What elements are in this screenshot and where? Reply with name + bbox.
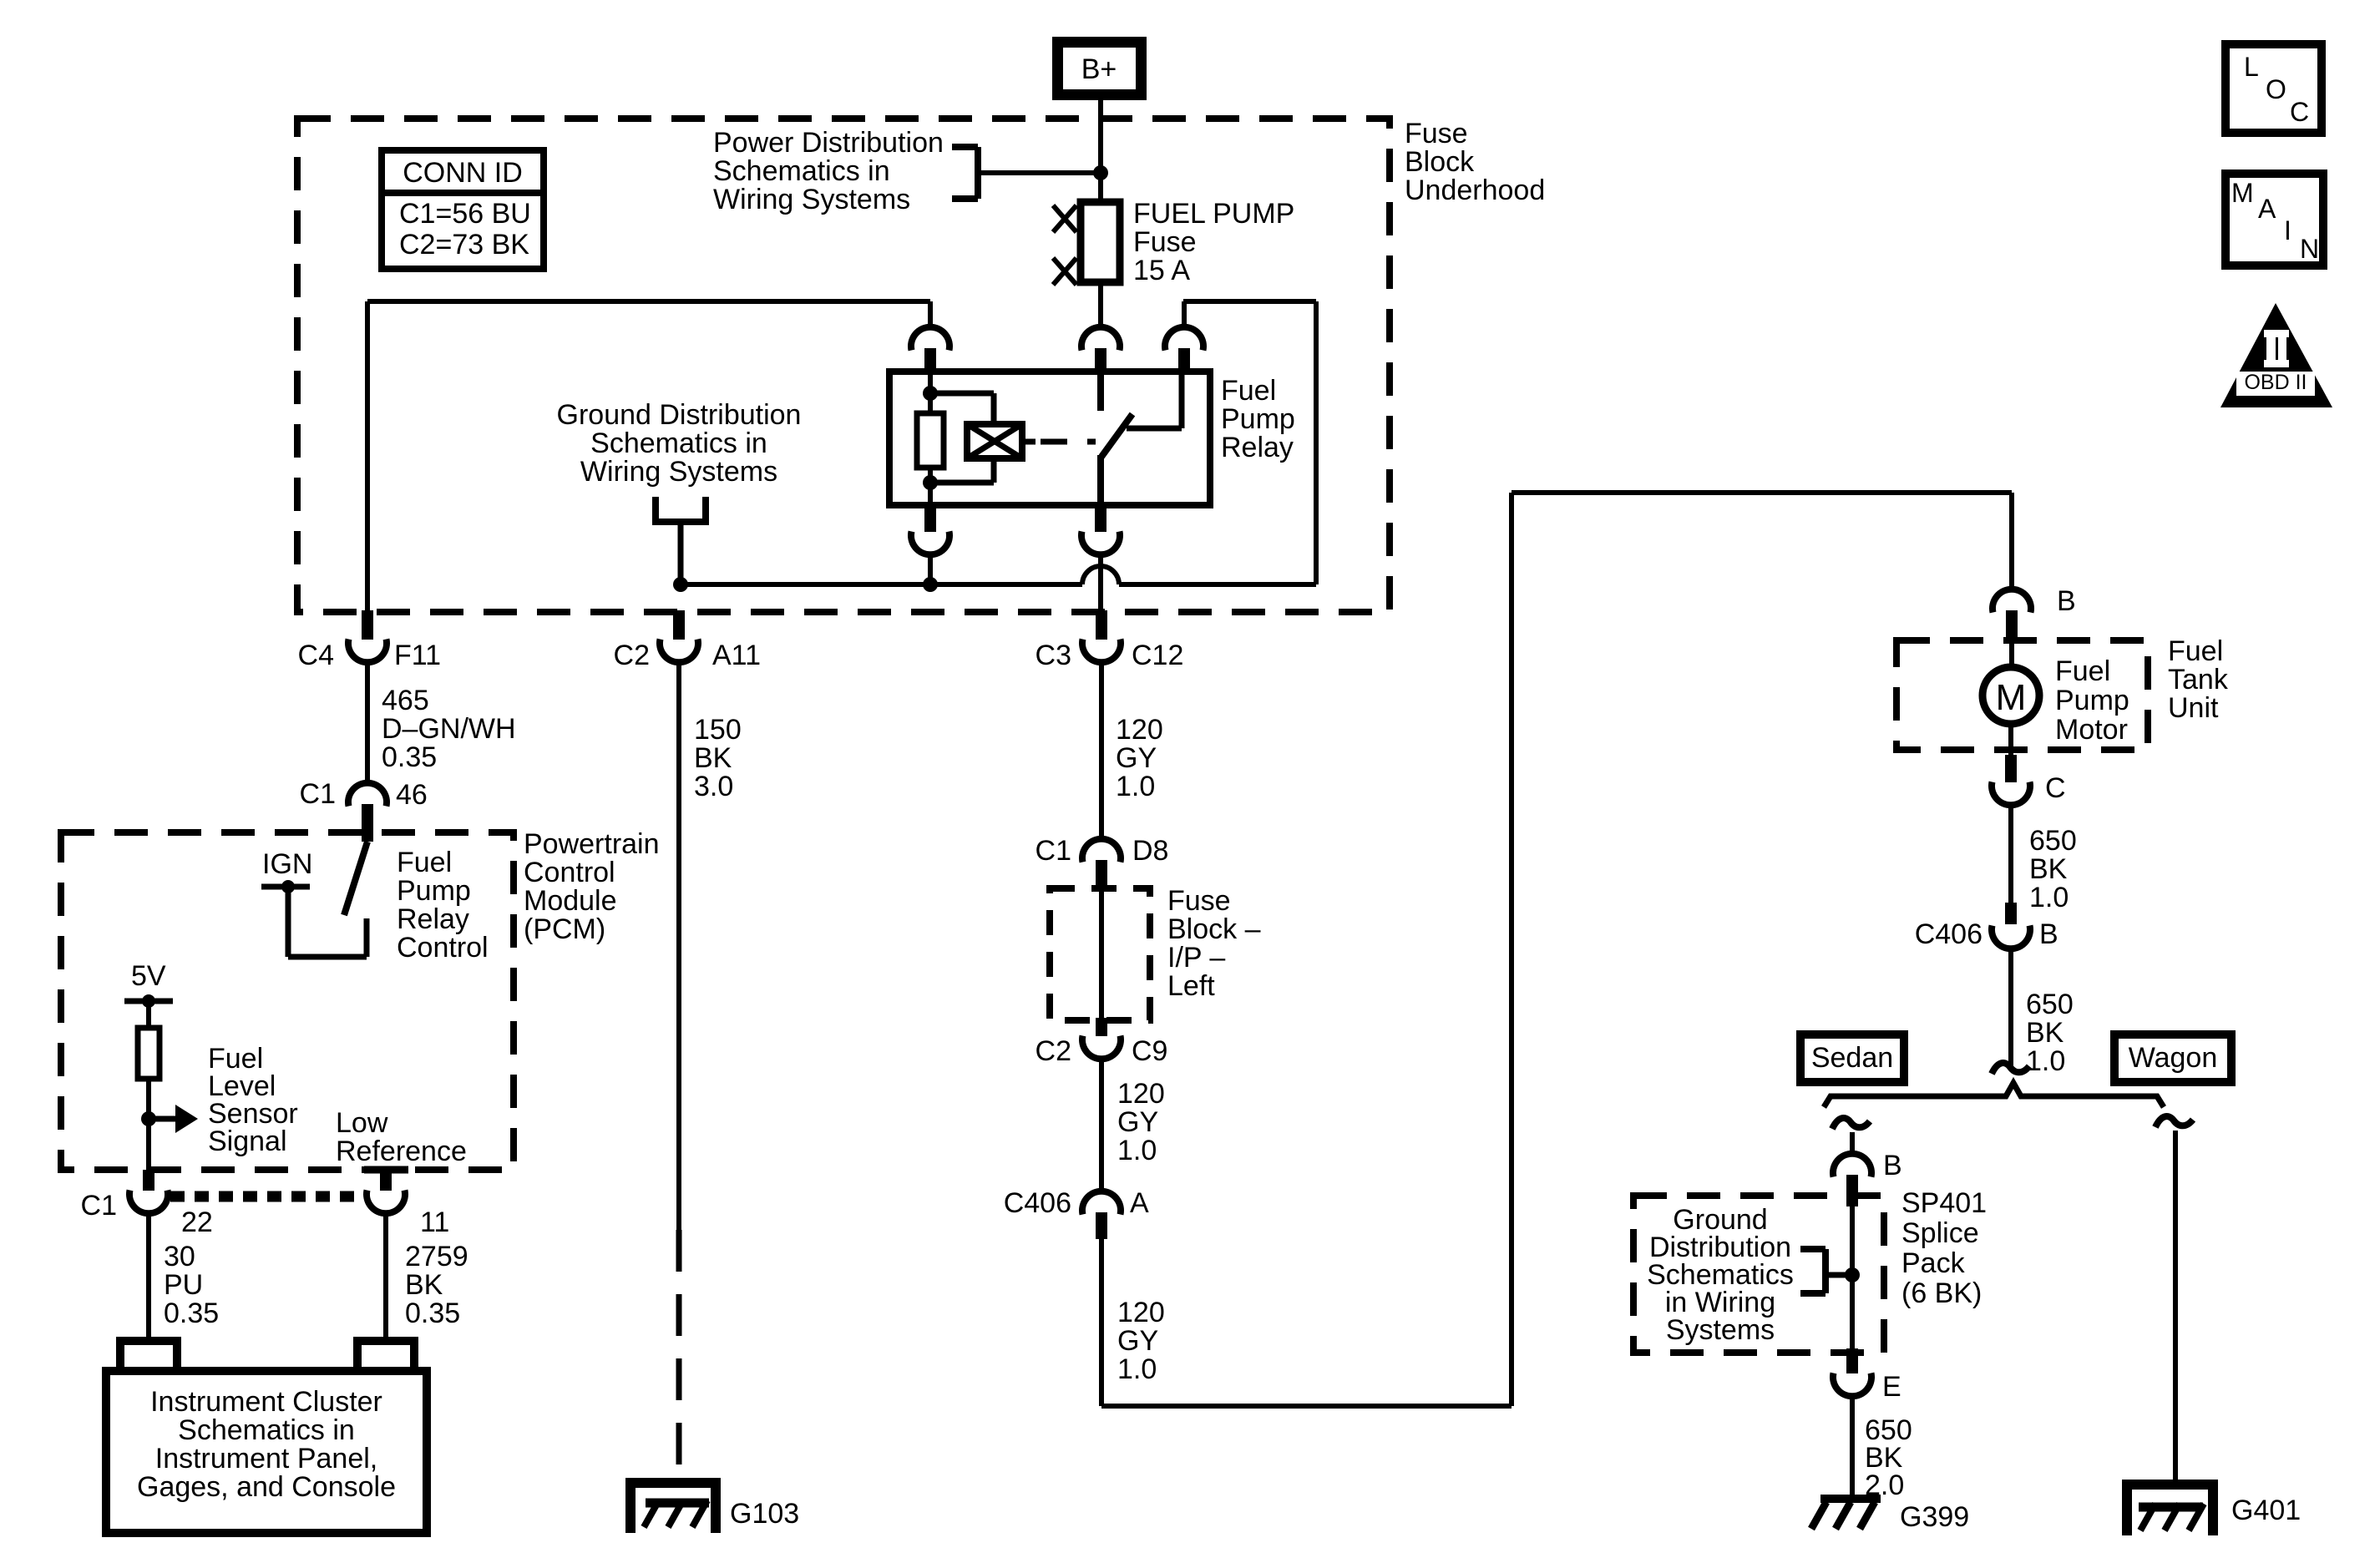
wire coil branch xyxy=(930,391,994,397)
wire 120 GY 1.0 (c) to fuel tank xyxy=(1099,1239,1104,1406)
svg-text:C: C xyxy=(2045,772,2066,804)
svg-text:30: 30 xyxy=(164,1241,195,1272)
dashed wire to G103 xyxy=(676,1230,682,1473)
low reference pin tick xyxy=(364,1166,408,1174)
svg-text:C12: C12 xyxy=(1132,640,1183,671)
svg-text:1.0: 1.0 xyxy=(1117,1353,1157,1385)
wire through fuse block IP xyxy=(1099,892,1104,1018)
junction dot ground distribution tap xyxy=(673,577,688,592)
svg-text:1.0: 1.0 xyxy=(1116,771,1155,802)
svg-text:Schematics in: Schematics in xyxy=(590,427,767,459)
icon LOC xyxy=(2226,44,2322,133)
svg-text:Ground Distribution: Ground Distribution xyxy=(557,399,802,431)
svg-text:C2: C2 xyxy=(614,640,650,671)
wire bottom run to right riser xyxy=(1101,1404,1512,1409)
svg-text:Fuse: Fuse xyxy=(1167,885,1231,917)
connector C406 / A xyxy=(1082,1191,1121,1215)
wire motor to C connector xyxy=(2008,724,2013,755)
svg-text:N: N xyxy=(2300,234,2319,264)
svg-text:G399: G399 xyxy=(1900,1501,1969,1533)
svg-text:GY: GY xyxy=(1116,742,1157,774)
variant box Sedan xyxy=(1800,1034,1904,1082)
connector relay switch output (bottom middle) xyxy=(1095,505,1106,532)
svg-text:C9: C9 xyxy=(1132,1035,1167,1067)
arrow fuel level sensor signal xyxy=(149,1116,177,1122)
wire fuse to relay pin 86 connector xyxy=(1098,282,1103,327)
wire 150 BK 3.0 xyxy=(676,662,681,1230)
svg-text:465: 465 xyxy=(382,685,429,716)
junction dot ground bus / coil return xyxy=(923,577,938,592)
svg-text:BK: BK xyxy=(694,742,732,774)
svg-text:PU: PU xyxy=(164,1269,203,1301)
svg-text:Fuel: Fuel xyxy=(2055,655,2110,687)
wire relay output down to C3 xyxy=(1098,554,1103,615)
svg-text:IGN: IGN xyxy=(262,848,312,880)
SP401 splice pack dashed box xyxy=(1633,1196,1884,1353)
svg-text:150: 150 xyxy=(694,714,742,746)
svg-text:Splice: Splice xyxy=(1901,1217,1979,1249)
ground G401 xyxy=(2127,1485,2213,1535)
ground G399 xyxy=(1820,1495,1881,1503)
svg-text:650: 650 xyxy=(2029,825,2077,857)
svg-text:Signal: Signal xyxy=(208,1126,287,1157)
svg-text:(PCM): (PCM) xyxy=(524,913,605,945)
svg-text:46: 46 xyxy=(396,779,428,811)
svg-text:C2: C2 xyxy=(1036,1035,1071,1067)
wire wagon branch to G401 xyxy=(2173,1131,2178,1485)
dotted connector tie line xyxy=(170,1191,364,1202)
brace harness variant split xyxy=(1824,1083,2164,1107)
relay internal coil circuit xyxy=(928,372,933,413)
svg-text:Fuse: Fuse xyxy=(1405,118,1468,149)
svg-text:C1: C1 xyxy=(300,778,336,810)
svg-text:120: 120 xyxy=(1117,1297,1165,1328)
svg-text:Fuse: Fuse xyxy=(1133,226,1197,258)
svg-text:C2=73 BK: C2=73 BK xyxy=(399,229,529,261)
svg-text:Reference: Reference xyxy=(336,1136,467,1167)
wire loop to relay pin 87 xyxy=(1314,301,1319,584)
svg-text:Underhood: Underhood xyxy=(1405,175,1545,206)
svg-text:Instrument Panel,: Instrument Panel, xyxy=(155,1443,377,1475)
svg-text:Pack: Pack xyxy=(1901,1247,1966,1279)
svg-text:Sedan: Sedan xyxy=(1811,1042,1893,1074)
instrument cluster terminal posts xyxy=(120,1341,177,1371)
connector C4 / F11 xyxy=(362,610,373,640)
connector C2 / C9 xyxy=(1096,1018,1107,1036)
junction dot SP401 splice xyxy=(1845,1267,1860,1282)
wire 120 GY 1.0 (b) xyxy=(1099,1059,1104,1193)
wire to relay top-right pin xyxy=(1182,301,1187,327)
relay switch blade xyxy=(1101,414,1132,457)
bracket ground distribution (SP401) xyxy=(1822,1249,1829,1293)
svg-text:15 A: 15 A xyxy=(1133,255,1190,286)
svg-text:FUEL PUMP: FUEL PUMP xyxy=(1133,198,1294,230)
svg-text:Schematics in: Schematics in xyxy=(178,1414,355,1446)
connector B (fuel tank unit) xyxy=(1993,589,2031,613)
svg-text:0.35: 0.35 xyxy=(164,1297,219,1329)
CONN ID table xyxy=(382,150,544,269)
svg-text:M: M xyxy=(1996,677,2027,718)
svg-text:Block: Block xyxy=(1405,146,1475,178)
variant box Wagon xyxy=(2114,1034,2231,1082)
svg-text:11: 11 xyxy=(420,1206,449,1238)
svg-text:120: 120 xyxy=(1116,714,1163,746)
svg-text:Pump: Pump xyxy=(1221,403,1295,435)
bracket power distribution xyxy=(975,147,981,199)
ground bus inside fuse block xyxy=(681,582,1082,587)
ground G103 xyxy=(630,1483,716,1533)
svg-text:Fuel: Fuel xyxy=(1221,375,1276,407)
svg-text:Fuel: Fuel xyxy=(2168,635,2223,667)
fuse block IP left dashed box xyxy=(1050,888,1150,1020)
svg-text:Gages, and Console: Gages, and Console xyxy=(137,1471,396,1503)
svg-text:Wagon: Wagon xyxy=(2129,1042,2217,1074)
svg-text:C: C xyxy=(2290,97,2309,127)
svg-text:Power Distribution: Power Distribution xyxy=(713,127,944,159)
svg-text:C4: C4 xyxy=(298,640,334,671)
wire 650 BK 1.0 (b) xyxy=(2008,948,2013,1070)
svg-text:A: A xyxy=(2258,194,2276,224)
connector C1 / 22 xyxy=(143,1170,154,1191)
svg-text:Wiring Systems: Wiring Systems xyxy=(580,456,777,488)
svg-text:E: E xyxy=(1882,1371,1901,1403)
svg-text:C1=56 BU: C1=56 BU xyxy=(399,198,531,230)
connector relay output loop pin (top right) xyxy=(1165,327,1203,351)
relay fixed contact xyxy=(1097,372,1104,411)
svg-text:Systems: Systems xyxy=(1666,1314,1775,1346)
svg-text:2759: 2759 xyxy=(405,1241,468,1272)
wire relay coil feed to PCM branch xyxy=(367,299,930,304)
svg-text:(6 BK): (6 BK) xyxy=(1901,1277,1982,1309)
wire 465 D-GN/WH 0.35 xyxy=(365,662,370,783)
motor M fuel pump xyxy=(1982,667,2039,724)
svg-text:I: I xyxy=(2284,215,2291,245)
svg-text:SP401: SP401 xyxy=(1901,1187,1987,1219)
connector relay switch feed pin (top middle) xyxy=(1081,327,1120,351)
svg-text:Pump: Pump xyxy=(2055,685,2129,716)
fuse block underhood dashed box xyxy=(297,119,1390,612)
svg-text:1.0: 1.0 xyxy=(2026,1045,2065,1077)
wire 30 PU 0.35 xyxy=(146,1213,151,1337)
wire 650 BK 1.0 (a) xyxy=(2008,805,2013,903)
svg-text:D8: D8 xyxy=(1132,835,1168,867)
icon MAIN xyxy=(2226,174,2323,266)
connector C (fuel tank unit) xyxy=(2005,755,2017,782)
connector E (SP401 out) xyxy=(1846,1348,1858,1373)
connector relay coil return (bottom left) xyxy=(924,505,936,532)
connector 11 (low reference) xyxy=(380,1170,392,1191)
fuel tank unit dashed box xyxy=(1896,640,2148,750)
resistor fuel level sense pull-up xyxy=(138,1028,160,1079)
junction dot fuel level sensor signal xyxy=(141,1111,156,1126)
PCM dashed box xyxy=(61,832,514,1170)
wire 650 BK 2.0 xyxy=(1850,1396,1855,1495)
svg-text:B: B xyxy=(2057,585,2076,617)
fuse terminal X marks xyxy=(1053,205,1076,232)
svg-text:OBD II: OBD II xyxy=(2244,371,2307,394)
svg-text:0.35: 0.35 xyxy=(405,1297,460,1329)
wire 2759 BK 0.35 xyxy=(383,1213,388,1337)
IGN terminal xyxy=(261,884,310,890)
wire top run to fuel tank xyxy=(1512,490,2012,495)
svg-text:3.0: 3.0 xyxy=(694,771,733,802)
wire sedan branch to B xyxy=(1850,1132,1855,1156)
connector relay coil pin (top left) xyxy=(911,327,949,351)
connector C1 / 46 xyxy=(348,783,387,807)
connector C406 / B xyxy=(2005,903,2017,924)
node B+ (battery feed) xyxy=(1052,37,1147,100)
svg-text:1.0: 1.0 xyxy=(1117,1135,1157,1166)
svg-text:Control: Control xyxy=(397,932,489,964)
connector C3 / C12 xyxy=(1096,610,1107,640)
svg-text:Unit: Unit xyxy=(2168,692,2219,724)
wire 120 GY 1.0 (a) xyxy=(1099,662,1104,841)
connector C2 / A11 xyxy=(673,610,685,640)
wire through SP401 xyxy=(1850,1206,1855,1348)
svg-text:Left: Left xyxy=(1167,970,1215,1002)
svg-text:CONN ID: CONN ID xyxy=(403,157,523,189)
wire to fuel pump motor xyxy=(2009,643,2014,669)
svg-text:Module: Module xyxy=(524,885,617,917)
svg-text:Powertrain: Powertrain xyxy=(524,828,660,860)
svg-text:GY: GY xyxy=(1117,1325,1158,1357)
svg-text:Fuel: Fuel xyxy=(397,847,452,878)
svg-text:Tank: Tank xyxy=(2168,664,2229,696)
resistor (relay coil suppression) xyxy=(917,413,944,468)
svg-text:B: B xyxy=(2039,918,2058,950)
svg-text:650: 650 xyxy=(2026,989,2074,1020)
svg-text:Relay: Relay xyxy=(1221,432,1294,463)
svg-text:Instrument Cluster: Instrument Cluster xyxy=(150,1386,382,1418)
coil actuating dashed link xyxy=(1022,439,1036,445)
svg-text:Control: Control xyxy=(524,857,615,888)
wire hop over switch output xyxy=(1082,566,1119,584)
junction dot power distribution tap xyxy=(1093,165,1108,180)
svg-text:120: 120 xyxy=(1117,1078,1165,1110)
connector B (SP401) xyxy=(1833,1154,1871,1177)
svg-text:C3: C3 xyxy=(1036,640,1071,671)
svg-text:M: M xyxy=(2231,178,2254,208)
bracket ground distribution xyxy=(652,497,659,525)
svg-text:Wiring Systems: Wiring Systems xyxy=(713,184,910,215)
splice symbol wagon branch xyxy=(2155,1116,2193,1127)
svg-text:L: L xyxy=(2244,52,2259,82)
svg-text:Low: Low xyxy=(336,1107,388,1139)
wire B+ to fuse xyxy=(1098,100,1103,204)
splice symbol at harness split xyxy=(1992,1063,2029,1074)
svg-text:22: 22 xyxy=(181,1206,213,1238)
icon OBD II triangle xyxy=(2220,303,2332,407)
svg-text:C406: C406 xyxy=(1004,1187,1071,1219)
svg-text:B: B xyxy=(1883,1150,1902,1181)
svg-text:Schematics in: Schematics in xyxy=(713,155,890,187)
wire coil return to ground bus xyxy=(928,554,933,584)
svg-text:O: O xyxy=(2266,74,2286,104)
svg-text:C1: C1 xyxy=(81,1190,117,1222)
svg-text:Relay: Relay xyxy=(397,903,469,935)
wire tap to power distribution bracket xyxy=(981,170,1101,175)
connector C1 / D8 xyxy=(1082,839,1121,862)
svg-text:Block –: Block – xyxy=(1167,913,1261,945)
svg-text:I/P –: I/P – xyxy=(1167,942,1225,974)
svg-text:C406: C406 xyxy=(1915,918,1982,950)
svg-text:5V: 5V xyxy=(131,960,166,992)
instrument cluster box xyxy=(106,1371,427,1533)
svg-text:A11: A11 xyxy=(712,640,761,671)
svg-text:C1: C1 xyxy=(1036,835,1071,867)
fuse FUEL PUMP 15A body xyxy=(1081,202,1120,282)
svg-text:Pump: Pump xyxy=(397,875,471,907)
svg-text:Motor: Motor xyxy=(2055,714,2128,746)
relay switch common to output xyxy=(1097,455,1104,505)
svg-text:A: A xyxy=(1130,1187,1149,1219)
splice symbol sedan branch xyxy=(1832,1118,1870,1129)
relay contact elbow to pin 87 xyxy=(1127,426,1182,432)
svg-text:0.35: 0.35 xyxy=(382,741,437,773)
svg-text:BK: BK xyxy=(2029,853,2068,885)
svg-text:1.0: 1.0 xyxy=(2029,882,2069,913)
svg-text:F11: F11 xyxy=(394,640,441,671)
svg-text:B+: B+ xyxy=(1081,53,1117,85)
svg-text:G103: G103 xyxy=(730,1498,799,1530)
svg-text:D–GN/WH: D–GN/WH xyxy=(382,713,516,745)
PCM fuel pump relay control switch xyxy=(344,842,367,915)
svg-text:BK: BK xyxy=(405,1269,443,1301)
svg-text:GY: GY xyxy=(1117,1106,1158,1138)
relay box Fuel Pump Relay xyxy=(889,372,1210,505)
relay coil (box with X) xyxy=(967,424,1022,458)
svg-text:G401: G401 xyxy=(2231,1495,2301,1526)
svg-text:BK: BK xyxy=(2026,1017,2064,1049)
